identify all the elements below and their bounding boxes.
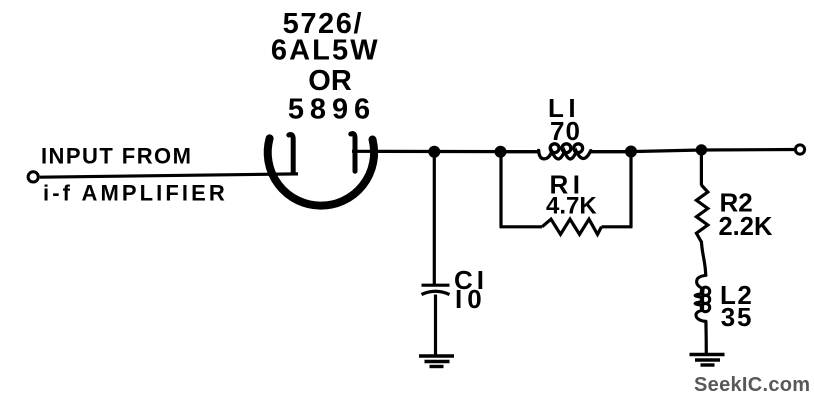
wire L1 to output terminal <box>591 150 796 152</box>
svg-text:i-f AMPLIFIER: i-f AMPLIFIER <box>43 180 228 205</box>
wire L2 to ground <box>704 321 708 356</box>
svg-text:2.2K: 2.2K <box>719 213 773 241</box>
ground below C1 <box>419 356 454 367</box>
inductor L2 <box>695 275 710 321</box>
wire R1 left vertical <box>499 152 502 227</box>
wire input to cathode <box>40 174 298 177</box>
svg-text:5896: 5896 <box>288 94 376 126</box>
capacitor C1 <box>422 285 450 294</box>
svg-text:35: 35 <box>721 302 754 332</box>
wire R2 to L2 <box>701 241 705 276</box>
wire R2 upper stub <box>700 150 703 186</box>
wire R1 right vertical <box>629 152 632 227</box>
wire R1 bottom left <box>500 225 543 228</box>
wire R1 bottom right <box>602 225 633 228</box>
tube V1 envelope <box>268 138 374 205</box>
ground below L2 <box>690 355 725 366</box>
wire L1 left stub <box>501 150 540 153</box>
svg-text:4.7K: 4.7K <box>546 193 597 220</box>
svg-text:6AL5W: 6AL5W <box>271 35 380 67</box>
output terminal <box>795 145 804 154</box>
svg-text:SeekIC.com: SeekIC.com <box>694 374 810 396</box>
svg-text:70: 70 <box>550 116 581 146</box>
svg-text:OR: OR <box>308 65 352 97</box>
svg-text:I0: I0 <box>455 284 487 314</box>
wire L1 right stub <box>591 150 632 153</box>
node junction dot R2 <box>696 144 707 155</box>
resistor R2 <box>696 185 707 242</box>
input terminal <box>28 172 38 182</box>
wire C1 branch upper <box>433 152 436 284</box>
node junction dot L1 right <box>625 146 637 158</box>
node junction dot C1 <box>428 146 440 158</box>
inductor L1 <box>539 144 591 159</box>
wire plate lead to L1 <box>352 150 540 154</box>
tube plate (right electrode) <box>351 134 355 172</box>
svg-text:INPUT FROM: INPUT FROM <box>41 144 192 169</box>
tube cathode (left electrode) <box>289 135 293 173</box>
resistor R1 <box>542 219 602 234</box>
node junction dot L1 left <box>495 146 507 158</box>
wire C1 to ground <box>434 295 437 357</box>
